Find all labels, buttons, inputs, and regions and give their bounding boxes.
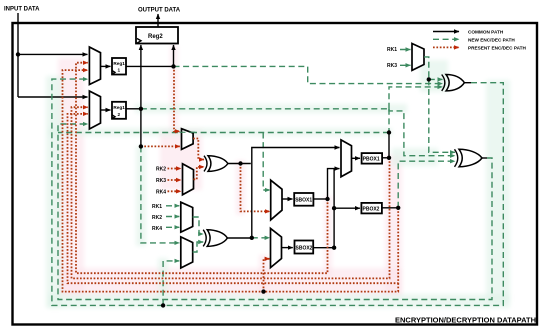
- wire M8 branch down to XOR2r: [429, 79, 455, 152]
- wire bus down to PBOX2 and SBOX2: [333, 169, 335, 248]
- svg-text:Reg1: Reg1: [113, 105, 125, 110]
- wire PBOX2 out: [382, 207, 398, 209]
- wire M3 to PBOX1: [352, 157, 361, 159]
- register Reg1-2: [112, 102, 126, 119]
- node green loop riser: [161, 303, 165, 307]
- wire Reg1-1 output: [126, 65, 174, 67]
- svg-text:PBOX2: PBOX2: [363, 206, 380, 212]
- node SBOX1 out: [325, 197, 329, 201]
- svg-text:SBOX1: SBOX1: [295, 198, 312, 204]
- svg-text:NEW ENC/DEC PATH: NEW ENC/DEC PATH: [468, 37, 515, 42]
- node green132: [387, 130, 391, 134]
- wire red riser to SBOX2 mux: [264, 259, 270, 292]
- wire M5 out to XOR1m: [194, 167, 205, 179]
- node XOR1m out: [238, 161, 242, 165]
- wire XOR1r out: [464, 82, 471, 84]
- wire SBOX1 riser to M3: [328, 169, 340, 199]
- register Reg2: [136, 27, 178, 44]
- gate XOR1r: [442, 75, 445, 91]
- mux M5 RK2/3/4: [183, 164, 194, 195]
- wire RK1 arrow: [166, 205, 179, 207]
- node tap at 146: [139, 144, 143, 148]
- wire to SBOX2: [282, 247, 293, 249]
- mux SBOX2 mux: [271, 228, 282, 267]
- node Reg1-1 out: [171, 64, 175, 68]
- wire Reg1-2 output: [126, 108, 141, 110]
- node Reg1-2 out: [139, 107, 143, 111]
- node M8 out branch: [427, 77, 431, 81]
- wire RK3 arrow: [168, 179, 182, 181]
- svg-text:Reg2: Reg2: [148, 34, 163, 40]
- box PBOX2: [361, 203, 382, 214]
- wire PBOX2 green riser to XOR2r: [398, 161, 455, 208]
- node input junction: [16, 52, 20, 56]
- wire Reg1-2 jog to XOR2r: [389, 109, 455, 156]
- mux M8 RK1/RK3: [412, 44, 424, 71]
- mux M3: [341, 140, 352, 177]
- wire Reg1-1 to Reg2: [173, 45, 175, 66]
- mux M2: [89, 91, 100, 129]
- wire RK1 arrow: [400, 49, 411, 51]
- wire red tap Reg1-1 down: [174, 66, 180, 131]
- svg-text:Reg1: Reg1: [113, 61, 125, 66]
- wire green loop A: [52, 79, 503, 305]
- svg-text:RK4: RK4: [156, 189, 166, 195]
- svg-text:COMMON PATH: COMMON PATH: [468, 30, 504, 35]
- wire green feedback left at y132: [58, 132, 389, 134]
- node red bottom junction: [261, 289, 265, 293]
- box SBOX2: [295, 241, 314, 254]
- wire to PBOX2: [334, 207, 360, 209]
- svg-text:RK2: RK2: [152, 215, 162, 221]
- register Reg1-1: [112, 58, 126, 75]
- wire red tap Reg1-2 to M4: [141, 145, 180, 147]
- wire red to SBOX1 mux: [241, 164, 270, 212]
- wire input to mux M2: [18, 96, 88, 98]
- legend present path: [433, 46, 459, 48]
- box SBOX1: [294, 193, 313, 206]
- wire XOR2m out: [227, 237, 251, 239]
- wire Reg1-2 green east: [141, 108, 389, 110]
- mux M6 RK1/2/4: [181, 202, 193, 232]
- wire green down to SBOX1 mux: [263, 133, 270, 191]
- node PBOX2 out: [396, 206, 400, 210]
- wire Reg1-1 green to XOR1r: [174, 66, 443, 83]
- wire SBOX1 out: [313, 198, 327, 200]
- wire green loop B: [58, 124, 492, 300]
- wire red loop PBOX2 feedback lower: [63, 70, 399, 292]
- wire mid riser to mux M3: [252, 148, 340, 238]
- mux M7: [181, 237, 193, 268]
- svg-text:INPUT DATA: INPUT DATA: [4, 7, 40, 13]
- wire black PBOX1 riser: [388, 133, 390, 158]
- wire M4 out to XOR1m: [193, 139, 204, 160]
- svg-text:PBOX1: PBOX1: [363, 157, 380, 163]
- wire RK2 arrow: [168, 168, 182, 170]
- svg-text:ENCRYPTION/DECRYPTION DATAPATH: ENCRYPTION/DECRYPTION DATAPATH: [395, 315, 536, 324]
- wire red loop SBOX1 feedback: [76, 63, 328, 274]
- svg-text:RK2: RK2: [156, 167, 166, 173]
- haze backgrounds: [46, 45, 510, 308]
- wire green Reg1-2 tap down to M7: [141, 146, 179, 243]
- wire RK2 arrow: [166, 216, 179, 218]
- wire green crossing mux M4: [180, 131, 196, 133]
- wire to SBOX1: [282, 198, 293, 200]
- mux M1: [89, 47, 100, 85]
- svg-text:OUTPUT DATA: OUTPUT DATA: [138, 8, 181, 14]
- wire M1 to Reg1-1: [101, 65, 111, 67]
- wire green vertical to node132: [388, 109, 390, 133]
- svg-text:2: 2: [118, 112, 121, 117]
- wire red loop PBOX2 feedback upper: [68, 114, 399, 283]
- svg-text:RK3: RK3: [387, 63, 397, 69]
- wire green loop riser to M7: [163, 261, 179, 306]
- mux SBOX1 mux: [271, 180, 282, 220]
- svg-text:SBOX2: SBOX2: [296, 245, 313, 251]
- wire Reg2 output up: [157, 14, 159, 27]
- wire M7 out to XOR2m: [193, 242, 204, 252]
- wire XOR2r out: [482, 157, 487, 159]
- wire input to mux M1: [18, 53, 88, 55]
- wire XOR1m out: [228, 163, 251, 165]
- legend common path: [433, 31, 459, 33]
- wire RK4 arrow: [166, 226, 179, 228]
- mux M4 top RK mux: [182, 129, 194, 150]
- wire input vertical: [17, 13, 19, 97]
- svg-text:1: 1: [118, 68, 121, 73]
- wire green to SBOX2 mux: [252, 237, 270, 239]
- node SBOX2 out: [332, 246, 336, 250]
- gate XOR2m: [203, 230, 206, 247]
- wire M2 to Reg1-2: [101, 109, 111, 111]
- wire RK4 arrow: [168, 190, 182, 192]
- wire SBOX2 out: [313, 247, 334, 249]
- svg-text:RK1: RK1: [387, 47, 397, 53]
- wire Reg1-2 branch up to XOR1r: [389, 87, 443, 109]
- box PBOX1: [362, 153, 383, 164]
- node XOR2m out: [250, 236, 254, 240]
- wire RK3 arrow: [400, 64, 411, 66]
- wire M6 out to XOR2m: [193, 217, 204, 234]
- wire PBOX1 out: [382, 157, 389, 159]
- svg-text:RK4: RK4: [152, 226, 162, 232]
- wire red loop PBOX1 feedback: [72, 107, 390, 278]
- legend new path: [433, 38, 459, 40]
- svg-text:RK1: RK1: [152, 204, 162, 210]
- node PBOX2 in: [332, 206, 336, 210]
- gate XOR1m: [204, 156, 207, 172]
- svg-text:PRESENT ENC/DEC PATH: PRESENT ENC/DEC PATH: [468, 45, 527, 50]
- node PBOX1 out: [387, 156, 391, 160]
- gate XOR2r: [455, 149, 458, 167]
- wire Reg2 left input vertical: [140, 45, 142, 146]
- svg-text:RK3: RK3: [156, 178, 166, 184]
- wire M8 out to XOR1r: [424, 57, 429, 80]
